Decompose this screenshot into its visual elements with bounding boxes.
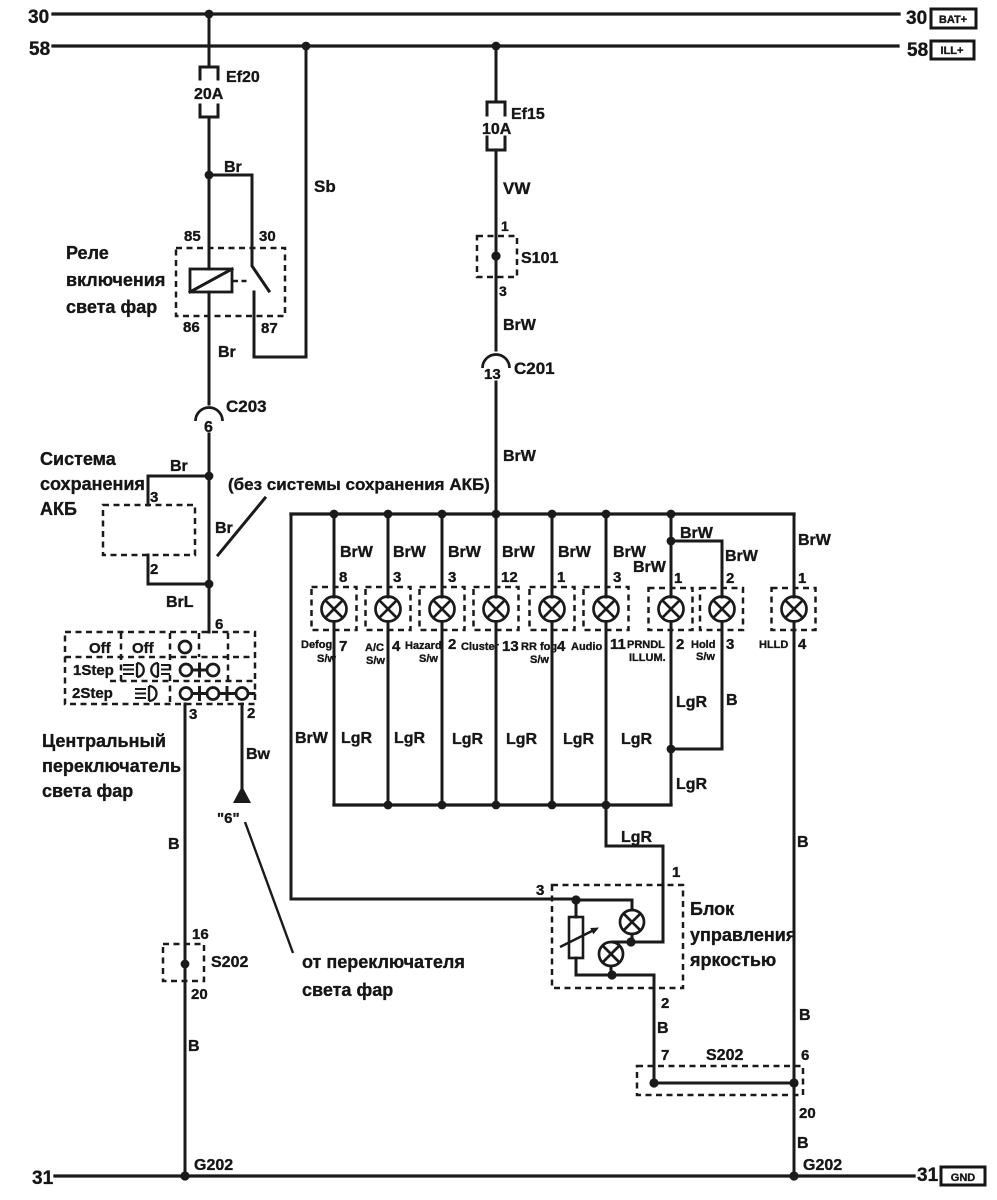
- svg-text:света фар: света фар: [302, 980, 393, 1000]
- relay pin 87: [261, 320, 278, 337]
- svg-text:11: 11: [610, 636, 626, 653]
- note (без системы сохранения АКБ): [218, 475, 490, 555]
- svg-text:7: 7: [661, 1047, 669, 1064]
- wire B HLLD pin4 down right side: [794, 622, 809, 1177]
- svg-text:20A: 20A: [194, 86, 224, 103]
- wire LgR return bus to dimmer pin 1: [606, 805, 680, 942]
- dimmer box Блок управления яркостью: [552, 885, 683, 988]
- svg-text:10A: 10A: [482, 121, 512, 138]
- wire S202 pin7 to pin6: [649, 1078, 798, 1087]
- node PRNDL tap to Hold: [667, 537, 676, 546]
- svg-text:G202: G202: [803, 1157, 842, 1174]
- svg-text:13: 13: [502, 638, 519, 655]
- svg-text:1Step: 1Step: [73, 662, 114, 679]
- svg-text:АКБ: АКБ: [40, 499, 77, 519]
- label 58 left: [29, 39, 50, 60]
- relay pin 86: [183, 319, 200, 336]
- svg-text:управления: управления: [690, 925, 796, 945]
- relay contact lever: [252, 248, 269, 291]
- svg-text:B: B: [657, 1020, 669, 1037]
- svg-text:2: 2: [661, 995, 669, 1012]
- svg-text:B: B: [188, 1038, 200, 1055]
- wire tap to Hold Sw: [671, 541, 759, 597]
- svg-text:B: B: [168, 836, 180, 853]
- svg-text:3: 3: [189, 706, 197, 723]
- svg-text:LgR: LgR: [621, 731, 653, 748]
- svg-text:Ef15: Ef15: [511, 106, 545, 123]
- svg-text:Ef20: Ef20: [226, 69, 260, 86]
- wire Sb bus58 to relay pin 87: [254, 46, 336, 357]
- label 58 right: [907, 40, 928, 61]
- svg-text:2: 2: [726, 570, 734, 587]
- svg-text:S/w: S/w: [530, 654, 549, 666]
- svg-text:BrW: BrW: [503, 317, 537, 334]
- switch row2 contacts: [180, 688, 254, 700]
- label switch Центральный переключатель света фар: [42, 731, 181, 801]
- node bus58/Sb: [302, 42, 311, 51]
- svg-text:3: 3: [393, 569, 401, 586]
- dimmer junction to pin1: [613, 937, 663, 946]
- switch row1 contacts: [180, 664, 219, 676]
- dimmer pin 3: [536, 882, 581, 905]
- svg-text:3: 3: [150, 489, 158, 506]
- svg-text:B: B: [797, 834, 809, 851]
- lamp feed bus BrW: [291, 512, 794, 515]
- svg-text:BrW: BrW: [503, 448, 537, 465]
- lamp A/C S/w: [365, 514, 427, 805]
- svg-text:1: 1: [501, 218, 509, 234]
- label relay Реле включения света фар: [66, 243, 165, 317]
- svg-text:31: 31: [32, 1168, 54, 1189]
- node bus PRNDL: [667, 510, 676, 519]
- node Br branch: [205, 159, 242, 179]
- icon low beam: [135, 686, 157, 701]
- wire B dimmer pin2 to S202: [654, 975, 669, 1083]
- wire B to G202 left: [188, 1038, 200, 1055]
- lamp PRNDL ILLUM: [627, 514, 714, 805]
- node return Cluster: [492, 801, 501, 810]
- headlamp switch box: [65, 632, 255, 704]
- switch pin 3: [189, 706, 197, 723]
- node BrL: [166, 580, 213, 611]
- svg-text:Блок: Блок: [690, 899, 735, 919]
- svg-text:12: 12: [501, 569, 518, 586]
- lamp Hold S/w: [691, 570, 743, 663]
- svg-text:LgR: LgR: [676, 694, 708, 711]
- svg-text:LgR: LgR: [452, 731, 484, 748]
- svg-text:Br: Br: [218, 344, 236, 361]
- svg-text:BrW: BrW: [340, 544, 374, 561]
- ground G202 left: [180, 1157, 233, 1181]
- svg-text:20: 20: [191, 986, 208, 1003]
- svg-text:1: 1: [672, 864, 680, 881]
- svg-text:LgR: LgR: [506, 731, 538, 748]
- dimmer pin 2: [661, 995, 669, 1012]
- dimmer internal wire to top lamp: [576, 900, 632, 910]
- svg-text:Br: Br: [170, 458, 188, 475]
- label Блок управления яркостью: [689, 899, 796, 970]
- ground bus 31: [55, 1174, 914, 1177]
- wire B switch pin3 down: [168, 704, 185, 1176]
- icon parking lamps: [123, 663, 170, 677]
- svg-text:Cluster: Cluster: [461, 641, 500, 653]
- svg-text:B: B: [726, 692, 738, 709]
- svg-text:PRNDL: PRNDL: [627, 639, 665, 651]
- wire B S202 to G202 right: [797, 1105, 816, 1152]
- terminal GND: [941, 1167, 985, 1185]
- svg-text:Система: Система: [40, 449, 117, 469]
- node branch to battery saver: [170, 458, 213, 480]
- wire branch to relay pin 30: [209, 175, 252, 248]
- node bus Cluster: [492, 510, 501, 519]
- svg-text:C203: C203: [226, 397, 267, 416]
- lamp Audio: [571, 514, 653, 805]
- svg-text:(без системы сохранения АКБ): (без системы сохранения АКБ): [228, 475, 490, 494]
- relay box: [176, 248, 285, 316]
- bus 58 ILL+: [53, 44, 898, 47]
- connector C203 pin 6: [196, 397, 267, 436]
- node bus Audio: [602, 510, 611, 519]
- wire VW fuse Ef15 to S101: [496, 150, 531, 350]
- svg-text:света фар: света фар: [66, 297, 157, 317]
- node return Audio: [602, 801, 611, 810]
- relay pin 85: [184, 228, 201, 245]
- svg-text:LgR: LgR: [394, 730, 426, 747]
- svg-text:Audio: Audio: [571, 641, 602, 653]
- splice S202 left: [163, 926, 248, 1003]
- svg-text:Br: Br: [215, 520, 233, 537]
- label 30 left: [28, 7, 49, 28]
- label 31 right: [917, 1165, 939, 1186]
- svg-text:1: 1: [557, 569, 565, 586]
- wire bus58 to fuse Ef15: [495, 46, 498, 102]
- svg-text:6: 6: [801, 1047, 809, 1064]
- fuse Ef15 10A: [482, 102, 545, 150]
- svg-text:4: 4: [798, 636, 807, 653]
- svg-text:GND: GND: [951, 1172, 976, 1184]
- svg-text:LgR: LgR: [563, 731, 595, 748]
- wire B Hold pin3 to join: [671, 622, 738, 750]
- svg-text:BrL: BrL: [166, 594, 194, 611]
- svg-text:6: 6: [215, 616, 223, 633]
- lamp Cluster: [461, 514, 538, 805]
- node bus Hazard: [438, 510, 447, 519]
- splice S202 right: [637, 1007, 811, 1095]
- svg-text:S202: S202: [211, 954, 248, 971]
- node return Hazard: [438, 801, 447, 810]
- label 31 left: [32, 1168, 54, 1189]
- svg-text:Defog: Defog: [301, 639, 332, 651]
- svg-text:Hold: Hold: [691, 639, 715, 651]
- svg-text:Br: Br: [224, 159, 242, 176]
- svg-text:58: 58: [907, 40, 928, 61]
- label Система сохранения АКБ: [40, 449, 145, 519]
- svg-text:31: 31: [917, 1165, 939, 1186]
- relay coil-contact link: [233, 280, 250, 283]
- svg-text:B: B: [797, 1135, 809, 1152]
- connector C201 pin 13: [483, 355, 555, 384]
- wire C203 to node Br: [208, 434, 211, 476]
- node bus30/Ef20: [205, 10, 214, 19]
- lamp Hazard S/w: [405, 514, 484, 805]
- lamp Defog S/w: [301, 514, 374, 805]
- relay pin 30: [259, 228, 276, 245]
- svg-text:VW: VW: [503, 179, 531, 198]
- svg-text:от переключателя: от переключателя: [302, 952, 465, 972]
- wire node BrL to switch pin 6: [209, 584, 223, 633]
- svg-text:"6": "6": [217, 810, 240, 827]
- node PRNDL/Hold join: [667, 745, 676, 754]
- svg-text:2: 2: [247, 705, 255, 722]
- bus 30 BAT+: [53, 12, 899, 15]
- wire BrW S101 to C201: [503, 317, 537, 334]
- svg-text:ILL+: ILL+: [941, 45, 964, 57]
- svg-text:13: 13: [484, 366, 501, 383]
- lamp RR fog S/w: [521, 514, 595, 805]
- svg-text:LgR: LgR: [676, 776, 708, 793]
- svg-text:2: 2: [676, 636, 684, 653]
- switch row 2Step: [72, 685, 113, 702]
- svg-text:30: 30: [259, 228, 276, 245]
- svg-text:85: 85: [184, 228, 201, 245]
- svg-text:BAT+: BAT+: [939, 14, 967, 26]
- wire Br between nodes: [209, 476, 233, 584]
- svg-text:HLLD: HLLD: [759, 639, 788, 651]
- svg-text:LgR: LgR: [341, 730, 373, 747]
- splice S101: [477, 218, 558, 299]
- svg-text:переключатель: переключатель: [42, 756, 181, 776]
- ground G202 right: [789, 1157, 842, 1181]
- svg-text:BrW: BrW: [393, 544, 427, 561]
- svg-text:BrW: BrW: [633, 559, 667, 576]
- switch row Off: [89, 640, 191, 657]
- label 30 right: [906, 8, 927, 29]
- terminal BAT+: [931, 9, 976, 28]
- svg-text:C201: C201: [514, 359, 555, 378]
- potentiometer: [560, 900, 599, 975]
- svg-text:BrW: BrW: [448, 544, 482, 561]
- svg-text:2Step: 2Step: [72, 685, 113, 702]
- label от переключателя света фар: [302, 952, 465, 1000]
- wire bus30 to fuse Ef20: [208, 14, 211, 67]
- node return A/C: [384, 801, 393, 810]
- terminal ILL+: [931, 41, 974, 59]
- svg-text:Центральный: Центральный: [42, 731, 166, 751]
- svg-text:ILLUM.: ILLUM.: [629, 652, 666, 664]
- svg-text:BrW: BrW: [558, 544, 592, 561]
- svg-text:3: 3: [726, 636, 734, 653]
- svg-text:G202: G202: [194, 1157, 233, 1174]
- battery saver box Система сохранения АКБ: [103, 505, 195, 555]
- svg-text:A/C: A/C: [365, 642, 384, 654]
- svg-text:87: 87: [261, 320, 278, 337]
- lamp return bus LgR: [334, 803, 671, 806]
- wire Bw switch pin2: [242, 704, 271, 788]
- node bus A/C: [384, 510, 393, 519]
- svg-text:86: 86: [183, 319, 200, 336]
- svg-text:S/w: S/w: [366, 655, 385, 667]
- svg-text:3: 3: [613, 569, 621, 586]
- svg-text:Off: Off: [89, 640, 112, 657]
- svg-text:S/w: S/w: [696, 651, 715, 663]
- svg-text:1: 1: [674, 570, 682, 587]
- node return RRfog: [548, 801, 557, 810]
- svg-text:30: 30: [28, 7, 49, 28]
- svg-text:BrW: BrW: [502, 544, 536, 561]
- wire Br relay 86 to C203: [209, 292, 236, 404]
- wire BrW C201 to lamp bus: [496, 382, 537, 514]
- svg-text:4: 4: [392, 638, 401, 655]
- svg-text:3: 3: [499, 283, 507, 299]
- fuse Ef20 20A: [194, 67, 260, 117]
- svg-text:Bw: Bw: [246, 746, 271, 763]
- node bus58/Ef15: [492, 42, 501, 51]
- svg-text:BrW: BrW: [798, 532, 832, 549]
- dimmer bottom rail: [576, 970, 654, 979]
- svg-text:яркостью: яркостью: [689, 950, 776, 970]
- svg-text:16: 16: [192, 926, 209, 943]
- dimmer top lamp: [620, 910, 644, 942]
- switch internal grid: [65, 633, 255, 703]
- wire fuse Ef20 to node Br: [208, 117, 211, 175]
- svg-text:58: 58: [29, 39, 50, 60]
- svg-text:Реле: Реле: [66, 243, 109, 263]
- svg-text:30: 30: [906, 8, 927, 29]
- svg-text:включения: включения: [66, 270, 165, 290]
- svg-text:BrW: BrW: [725, 548, 759, 565]
- svg-text:8: 8: [339, 569, 347, 586]
- node bus RRfog: [548, 510, 557, 519]
- arrow to headlamp switch net 6: [217, 786, 251, 827]
- svg-text:2: 2: [150, 561, 158, 578]
- node bus Defog: [330, 510, 339, 519]
- svg-text:7: 7: [339, 638, 347, 655]
- svg-text:B: B: [799, 1007, 811, 1024]
- svg-text:S/w: S/w: [419, 653, 438, 665]
- lamp HLLD: [759, 514, 832, 653]
- dimmer bottom lamp: [599, 942, 623, 975]
- wire to battery saver pin 3: [148, 476, 209, 506]
- svg-text:LgR: LgR: [621, 829, 653, 846]
- svg-text:1: 1: [798, 570, 806, 587]
- svg-text:4: 4: [557, 638, 566, 655]
- svg-text:BrW: BrW: [680, 525, 714, 542]
- svg-text:2: 2: [448, 636, 456, 653]
- switch pin 2: [247, 705, 255, 722]
- annotation line от переключателя: [245, 822, 293, 953]
- svg-text:Hazard: Hazard: [405, 640, 442, 652]
- switch row 1Step: [73, 662, 114, 679]
- wire BrW left drop to dimmer: [291, 514, 576, 899]
- svg-text:S101: S101: [521, 250, 558, 267]
- svg-text:Sb: Sb: [314, 177, 336, 196]
- svg-text:S202: S202: [706, 1047, 743, 1064]
- svg-text:20: 20: [799, 1105, 816, 1122]
- svg-text:3: 3: [448, 569, 456, 586]
- wire battery saver pin 2 to node BrL: [148, 555, 209, 584]
- svg-text:Off: Off: [132, 640, 155, 657]
- svg-text:BrW: BrW: [295, 730, 329, 747]
- relay coil: [190, 175, 232, 292]
- svg-text:сохранения: сохранения: [40, 474, 145, 494]
- svg-text:3: 3: [536, 882, 544, 899]
- svg-text:света фар: света фар: [42, 781, 133, 801]
